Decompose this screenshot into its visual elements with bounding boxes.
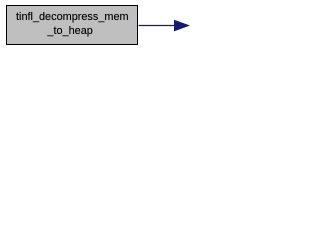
wire edge to called function [0, 0, 293, 51]
node label line 1: tinfl_decompress_mem [16, 10, 129, 25]
arrowhead [175, 21, 189, 31]
node label line 2: _to_heap [47, 24, 92, 39]
node box tinfl_decompress_mem_to_heap [6, 5, 138, 45]
wire line [139, 25, 175, 27]
